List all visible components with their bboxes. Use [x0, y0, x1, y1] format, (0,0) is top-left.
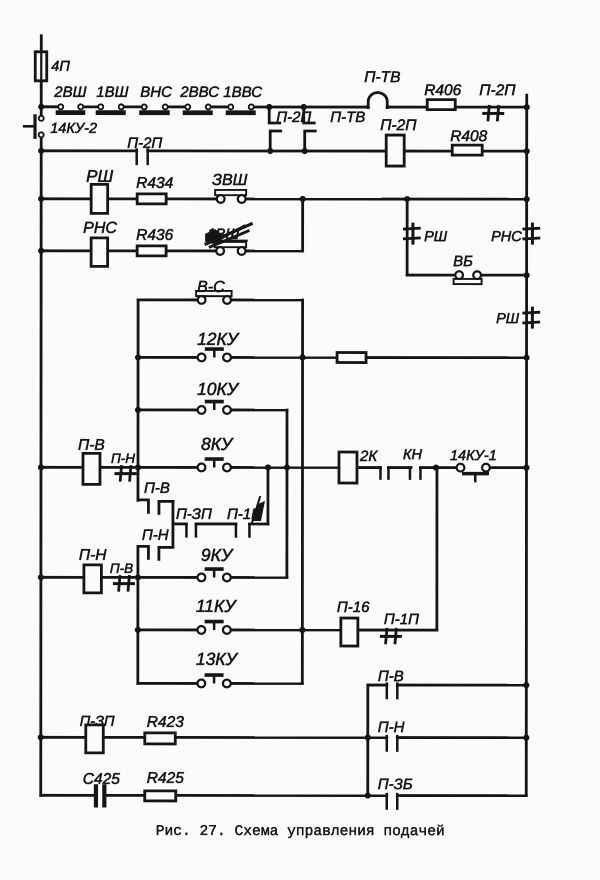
- capacitor C425: [94, 786, 98, 805]
- svg-text:2ВШ: 2ВШ: [53, 84, 86, 101]
- resistor R423: [145, 733, 176, 744]
- svg-text:ВНС: ВНС: [140, 84, 172, 101]
- limit switch VB: [454, 279, 482, 284]
- junction dot top row left: [38, 104, 44, 110]
- wire row 10KU y=410: [138, 408, 197, 411]
- wire row P-V y=685 bottom right: [368, 684, 387, 687]
- wire row P-2P y=151: [41, 149, 136, 152]
- wire row 13KU y=683.5: [138, 682, 197, 685]
- limit switch 2VVS: [183, 110, 213, 115]
- wire row RSh y=199: [41, 197, 90, 200]
- wire row V-S y=300: [138, 298, 197, 301]
- contact P-N NC on 8KU row: [116, 472, 135, 475]
- relay coil P-V: [83, 453, 100, 484]
- wire row C425 / P-3B y=795.5: [41, 794, 94, 797]
- contact RSh NC on right bus lower: [531, 308, 534, 327]
- fuse 4P: [35, 52, 47, 81]
- svg-text:R408: R408: [450, 128, 487, 145]
- ladder right rail x=302.5: [301, 300, 304, 683]
- relay coil P-2P: [386, 135, 404, 166]
- ladder left rail x=138: [137, 300, 140, 500]
- contact P-V NC on 9KU row: [114, 582, 133, 585]
- vertical link x=173: [172, 501, 175, 546]
- junction dots row 357: [135, 354, 141, 360]
- resistor R436: [137, 246, 166, 256]
- contact RNS NC on right bus: [531, 224, 534, 243]
- svg-text:П-В: П-В: [378, 668, 404, 685]
- svg-text:П-1П: П-1П: [384, 611, 419, 628]
- contact P-V NO bottom: [386, 684, 389, 698]
- resistor R425: [145, 791, 176, 801]
- button 9KU: [205, 567, 224, 571]
- relay coil 2K: [339, 452, 357, 483]
- relay coil P-N: [84, 565, 102, 593]
- junction dot row 410: [135, 407, 141, 413]
- resistor R408: [452, 145, 482, 155]
- limit switch 1VSh overwritten: [215, 242, 247, 247]
- hook contact P-V in left rail: [138, 500, 149, 513]
- left vertical x=368 bottom right: [366, 685, 369, 795]
- svg-text:R406: R406: [424, 82, 461, 99]
- svg-text:1ВВС: 1ВВС: [223, 84, 262, 101]
- thermal element P-TV bump on top row: [368, 93, 387, 108]
- relay coil P-3P: [86, 725, 104, 753]
- svg-text:П-2П: П-2П: [127, 135, 162, 152]
- junction dots row 199: [38, 196, 44, 202]
- button 10KU: [205, 400, 224, 404]
- top row wire y=107: [41, 105, 56, 108]
- wire row R423 / P-N y=737.5: [41, 736, 86, 739]
- right supply bus (vertical): [525, 95, 528, 795]
- wire row VB y=275: [407, 274, 455, 277]
- pushbutton 14KU-2 on left bus: [39, 116, 44, 121]
- button 13KU: [205, 673, 224, 677]
- svg-text:П-Н: П-Н: [111, 451, 135, 466]
- button 14KU-1: [457, 464, 465, 472]
- junction dot row 795: [365, 792, 371, 798]
- svg-text:КН: КН: [403, 447, 423, 463]
- svg-text:П-ЗБ: П-ЗБ: [378, 776, 413, 793]
- svg-text:П-В: П-В: [144, 480, 170, 497]
- relay coil P-16: [341, 618, 358, 646]
- junction dots row 467: [38, 464, 44, 470]
- svg-text:10КУ: 10КУ: [197, 379, 240, 399]
- svg-text:П-В: П-В: [78, 437, 105, 454]
- resistor R434: [137, 194, 166, 204]
- riser 10KU to 8KU row x=287: [286, 410, 289, 577]
- svg-text:РНС: РНС: [83, 220, 117, 237]
- svg-text:П-2П: П-2П: [479, 82, 516, 99]
- svg-text:R423: R423: [147, 714, 184, 731]
- svg-text:П-2П: П-2П: [380, 117, 417, 134]
- svg-text:РШ: РШ: [424, 229, 448, 245]
- svg-text:R434: R434: [136, 175, 173, 192]
- contact P-2P NC on top row: [484, 112, 503, 115]
- svg-text:П-ЗП: П-ЗП: [176, 506, 212, 523]
- svg-text:РШ: РШ: [86, 167, 113, 186]
- svg-text:2К: 2К: [359, 448, 378, 465]
- svg-text:14КУ-1: 14КУ-1: [450, 448, 497, 464]
- svg-text:РШ: РШ: [496, 311, 520, 327]
- resistor unlabeled row 12KU: [337, 353, 366, 363]
- relay coil RNS: [91, 238, 108, 267]
- junction dot row 251: [38, 248, 44, 254]
- limit switch VNS: [139, 110, 170, 115]
- svg-text:1ВШ: 1ВШ: [96, 84, 128, 101]
- svg-text:П-ТВ: П-ТВ: [364, 69, 400, 86]
- svg-text:П-16: П-16: [337, 599, 370, 616]
- branch RSh contact vertical x=407: [406, 199, 409, 275]
- junction dots rows 107/151 on buses: [38, 148, 44, 154]
- junction dots row 577: [38, 574, 44, 580]
- button 12KU: [205, 347, 224, 351]
- svg-text:В-С: В-С: [197, 279, 225, 296]
- left supply bus (vertical): [40, 36, 43, 52]
- limit switch V-S: [196, 291, 232, 296]
- svg-text:П-Н: П-Н: [378, 719, 405, 736]
- contact P-3B NO bottom: [385, 794, 388, 808]
- svg-text:Рис. 27. Схема управления пода: Рис. 27. Схема управления подачей: [156, 823, 445, 840]
- svg-text:9КУ: 9КУ: [201, 545, 234, 565]
- svg-text:П-ТВ: П-ТВ: [330, 109, 365, 126]
- junction dots row 630: [135, 627, 141, 633]
- svg-text:2ВВС: 2ВВС: [179, 84, 219, 101]
- riser x=437 from KN junction down to row 630: [435, 468, 438, 630]
- limit switch 1VSh: [96, 110, 126, 115]
- button 8KU: [205, 457, 224, 461]
- riser x=268 to 8KU row: [267, 467, 270, 524]
- svg-text:П-Н: П-Н: [142, 527, 169, 544]
- vertical contact P-2P bridging rows 107-151: [269, 107, 280, 123]
- junction dots row 737: [38, 734, 44, 740]
- svg-text:8КУ: 8КУ: [201, 434, 234, 454]
- svg-text:П-ЗП: П-ЗП: [80, 714, 115, 730]
- resistor R406: [427, 100, 455, 110]
- svg-text:12КУ: 12КУ: [197, 329, 240, 349]
- svg-text:РНС: РНС: [491, 229, 522, 245]
- wire row 12KU y=357.5: [138, 356, 197, 359]
- svg-text:13КУ: 13КУ: [196, 649, 239, 669]
- series bar P-3P / P-1P y=524: [173, 523, 186, 526]
- svg-text:R436: R436: [136, 227, 173, 244]
- limit switch 2VSh: [56, 110, 86, 115]
- riser connecting RNS row to RSh row: [301, 199, 304, 251]
- contact P-1P NC on row 630: [381, 635, 400, 638]
- wire row 8KU y=467.5: [41, 466, 83, 469]
- bridge contact KN: [379, 468, 382, 479]
- relay coil RSh: [91, 184, 108, 213]
- svg-text:С425: С425: [83, 771, 120, 788]
- contact P-2P NO in row 151: [135, 149, 138, 163]
- contact P-N NO bottom: [386, 736, 389, 750]
- wire row RNS y=251: [41, 249, 90, 252]
- svg-text:ЗВШ: ЗВШ: [212, 172, 248, 189]
- contact RSh NC on branch: [411, 224, 414, 243]
- limit switch 3VSh: [215, 190, 246, 195]
- svg-text:ВБ: ВБ: [453, 253, 473, 270]
- svg-text:П-Н: П-Н: [79, 547, 107, 564]
- svg-text:4П: 4П: [51, 59, 70, 75]
- svg-text:14КУ-2: 14КУ-2: [50, 121, 97, 137]
- svg-text:R425: R425: [147, 770, 184, 787]
- hook contact P-N in left rail: [138, 546, 149, 558]
- wire row 9KU y=577.5: [41, 576, 85, 579]
- limit switch 1VVS: [226, 110, 256, 115]
- svg-text:11КУ: 11КУ: [196, 596, 237, 616]
- button 11KU: [205, 620, 224, 624]
- wire row 11KU y=630: [138, 628, 197, 631]
- svg-text:П-В: П-В: [110, 561, 133, 576]
- vertical contact P-TV bridging rows 107-151: [304, 107, 315, 123]
